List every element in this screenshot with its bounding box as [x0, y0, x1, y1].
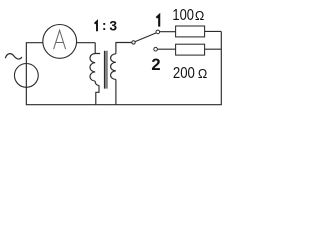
svg-text:2: 2 [151, 55, 160, 74]
svg-text:Ω: Ω [198, 67, 207, 81]
svg-text:3: 3 [109, 19, 117, 34]
svg-text::: : [102, 18, 107, 33]
svg-text:100: 100 [172, 7, 194, 24]
svg-text:200: 200 [173, 65, 195, 82]
svg-text:Ω: Ω [195, 9, 204, 23]
